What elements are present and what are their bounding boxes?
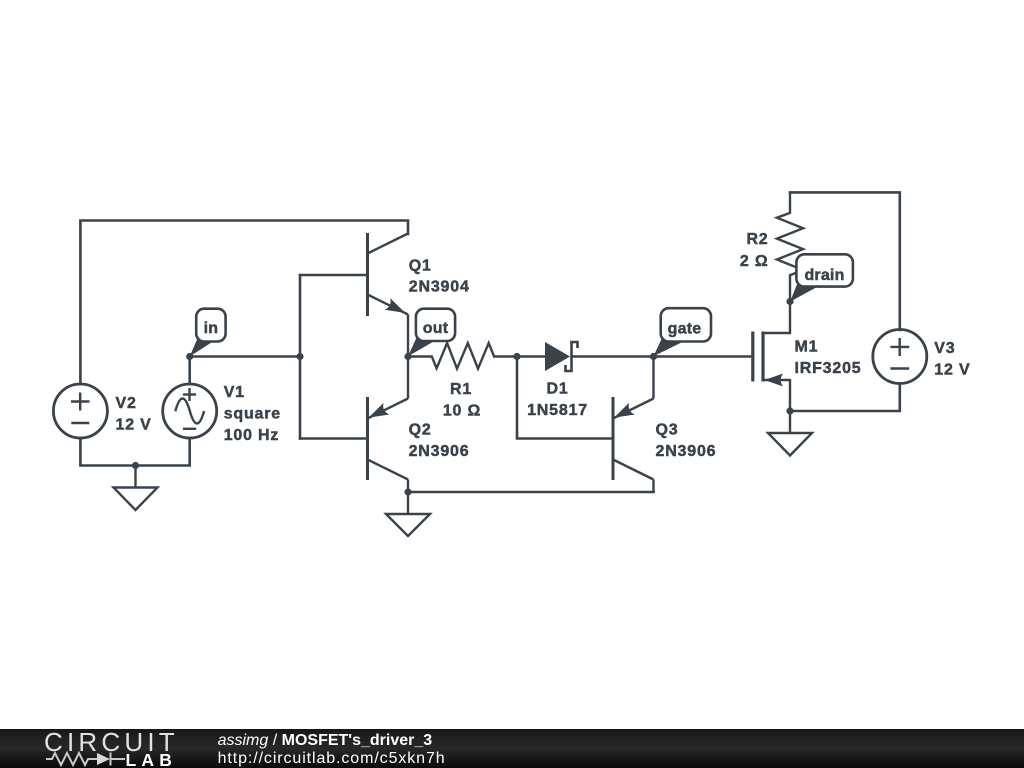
svg-text:out: out (423, 320, 449, 337)
label Q2 2N3906 (409, 422, 470, 461)
wire in node to bases vertical (190, 355, 300, 358)
svg-text:10 Ω: 10 Ω (443, 403, 481, 420)
transistor Q1 2N3904 npn (368, 233, 409, 357)
node junction dot in (186, 353, 193, 360)
svg-text:12 V: 12 V (934, 362, 970, 379)
resistor R1 (408, 343, 517, 369)
svg-text:assimg / MOSFET's_driver_3: assimg / MOSFET's_driver_3 (218, 732, 433, 749)
wire node R1D1 down to Q3 base (517, 357, 613, 439)
node junction dot base bus (296, 353, 303, 360)
svg-text:square: square (224, 406, 281, 423)
wire Q2 base (300, 437, 368, 440)
wire M1 source to V3 bottom (790, 384, 900, 411)
svg-text:in: in (204, 320, 219, 337)
label Q3 2N3906 (656, 422, 717, 461)
node junction dot out (404, 353, 411, 360)
wire base bus vertical Q1/Q2 (299, 275, 302, 439)
transistor Q3 2N3906 pnp (613, 357, 654, 493)
svg-text:2N3904: 2N3904 (409, 279, 470, 296)
node junction dot drain (786, 298, 793, 305)
wire bottom mid ground rail Q2-Q3 (408, 491, 654, 494)
wire top-left rail from V2 to Q1 collector (80, 221, 408, 385)
ground under Q2/Q3 (386, 492, 430, 536)
node junction dot gate (650, 353, 657, 360)
svg-text:V1: V1 (224, 384, 245, 401)
svg-text:2N3906: 2N3906 (656, 443, 717, 460)
label Q1 2N3904 (409, 258, 470, 296)
diode D1 1N5817 schottky (517, 342, 654, 371)
svg-text:gate: gate (668, 321, 702, 338)
svg-text:2 Ω: 2 Ω (740, 253, 769, 270)
node junction dot ground left (132, 462, 139, 469)
svg-text:12 V: 12 V (116, 417, 152, 434)
svg-text:2N3906: 2N3906 (409, 443, 470, 460)
node label in (190, 309, 226, 357)
ground under M1 (768, 411, 812, 456)
svg-text:100 Hz: 100 Hz (224, 427, 280, 444)
voltage source V1 square (163, 384, 217, 438)
resistor R2 (777, 192, 803, 301)
node junction dot M1 source (786, 407, 793, 414)
svg-text:V3: V3 (934, 340, 955, 357)
mosfet M1 IRF3205 (753, 302, 790, 412)
voltage source V2 (53, 384, 107, 438)
ground under V2/V1 (114, 466, 158, 511)
svg-text:Q1: Q1 (409, 258, 432, 275)
label M1 IRF3205 (795, 339, 862, 378)
node junction dot R1-D1 (513, 353, 520, 360)
svg-text:drain: drain (804, 267, 844, 284)
label V2 12 V (116, 395, 152, 434)
svg-text:LAB: LAB (126, 750, 178, 768)
transistor Q2 2N3906 pnp (368, 357, 409, 493)
node junction dot Q2 collector (404, 488, 411, 495)
svg-text:D1: D1 (546, 381, 568, 398)
svg-text:V2: V2 (116, 395, 137, 412)
label V1 square 100 Hz (224, 384, 281, 444)
svg-text:M1: M1 (795, 339, 819, 356)
node label drain (790, 254, 853, 301)
wire R2 top rail to V3 (790, 192, 900, 330)
svg-text:R2: R2 (746, 231, 768, 248)
node label out (408, 309, 455, 357)
svg-text:R1: R1 (450, 381, 472, 398)
voltage source V3 (873, 330, 927, 384)
label R1 10 Ω (443, 381, 481, 420)
node label gate (654, 308, 712, 356)
label V3 12 V (934, 340, 970, 379)
svg-text:IRF3205: IRF3205 (795, 360, 862, 377)
svg-text:1N5817: 1N5817 (527, 402, 588, 419)
wire Q1 base (300, 274, 368, 277)
logo resistor-diode squiggle (46, 753, 125, 766)
svg-text:Q2: Q2 (409, 422, 432, 439)
svg-text:Q3: Q3 (656, 422, 679, 439)
label D1 1N5817 (527, 381, 588, 420)
wire gate node to M1 gate (654, 355, 753, 358)
wire V2 bottom to ground rail (80, 438, 189, 466)
svg-text:http://circuitlab.com/c5xkn7h: http://circuitlab.com/c5xkn7h (218, 750, 446, 767)
label R2 2 Ω (740, 231, 769, 270)
footer bar (0, 729, 1024, 768)
wire V1 top to in node (188, 357, 191, 385)
